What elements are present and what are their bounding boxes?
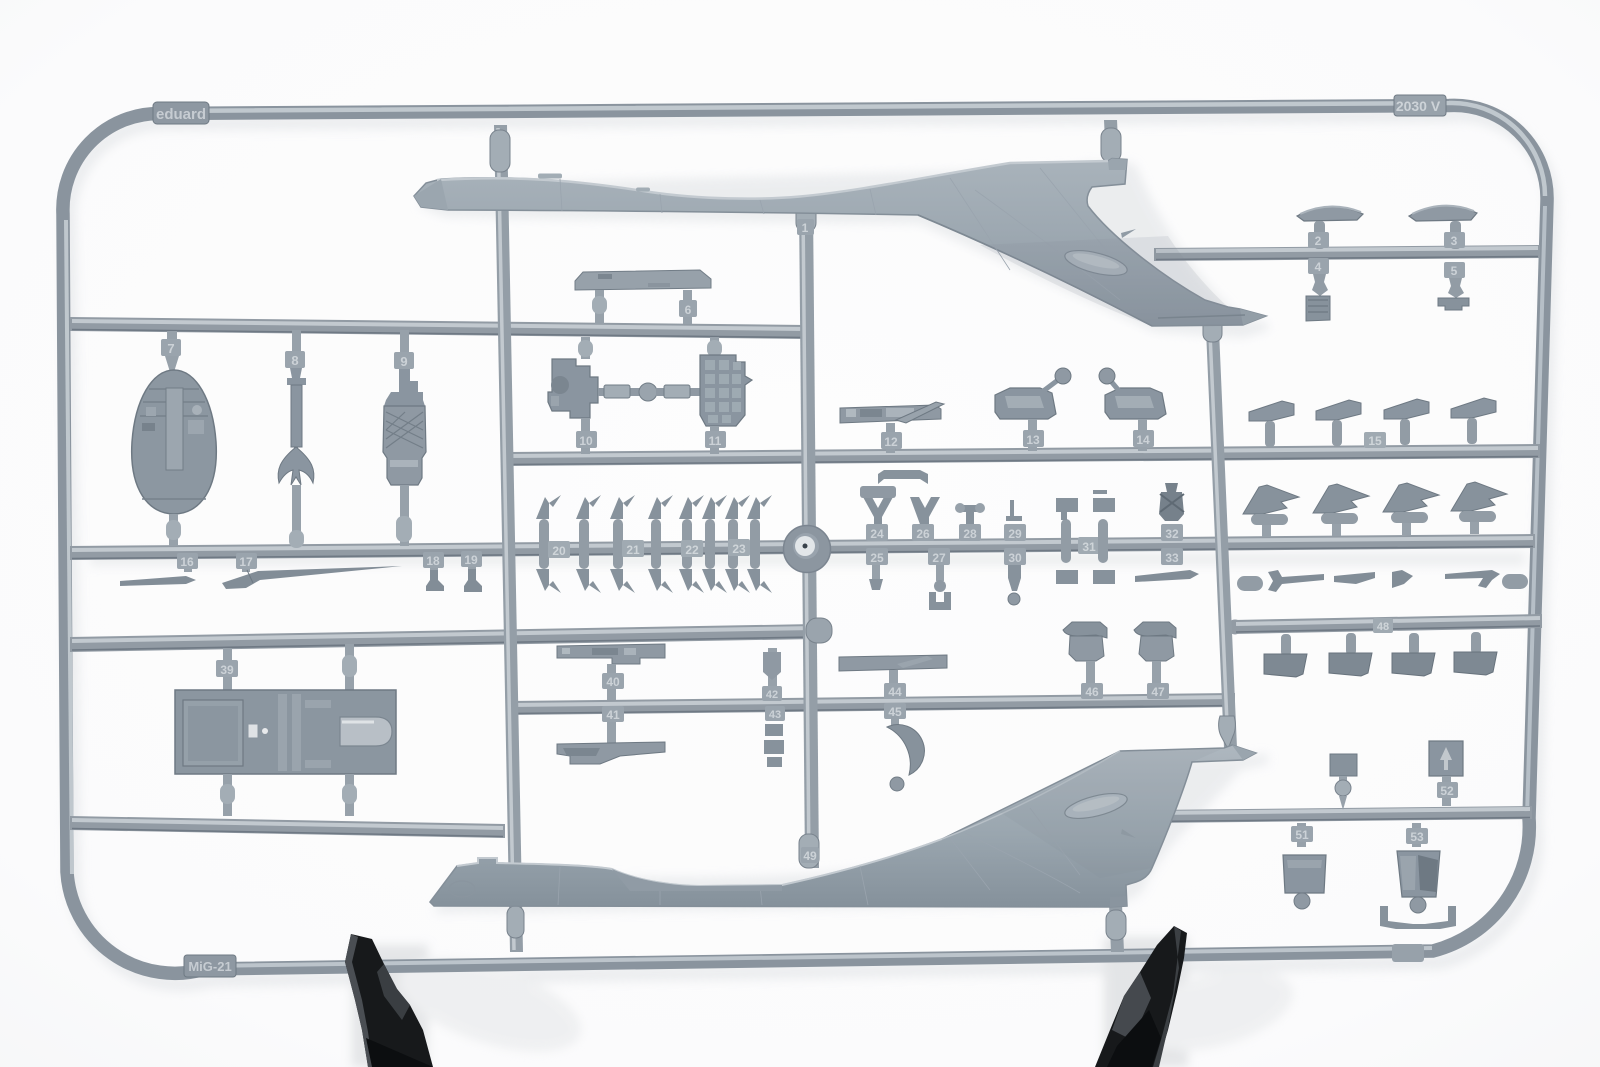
dumbbell link [598,388,642,396]
svg-text:18: 18 [426,554,440,568]
wheel part 1 on RowC [783,525,831,573]
svg-text:25: 25 [870,551,884,565]
label 17 + part 17 long pitot blade [242,560,250,572]
runner R4L (left lower horizontal) [70,624,816,652]
part 40 rail [557,644,665,664]
label 1 tag on V2 [797,219,814,235]
gate knob V1 bottom (to bottom frame) [507,906,524,938]
runner R4R (right lower horizontal) [1234,614,1542,634]
svg-text:10: 10 [579,434,593,448]
label 49 tag on V2 bottom [801,847,819,863]
runner R6R (right bottom horizontal) [1150,806,1532,823]
left clamp [345,934,433,1067]
nozzle cone detail [1232,745,1256,760]
svg-text:49: 49 [803,849,817,863]
MiG-21 tag on bottom frame [184,955,236,977]
stub cap on V2 (bullet) [806,618,832,643]
parts 42 43 column [768,648,777,688]
labels 20-23 31 on RowC [548,541,570,558]
svg-text:11: 11 [709,434,722,448]
svg-text:28: 28 [963,527,977,541]
vertical V4 (top gate to aft fuselage) [1104,120,1119,162]
part 31 flags columns [1061,519,1071,563]
parts 10-11 gates from RowA [581,337,590,359]
parts 15 ramp plates above RowB [1249,401,1294,447]
label 16 + part 16 blade [184,560,192,572]
vertical V1 (left column) [494,125,523,952]
gate knob V3 top (to fin tip) [1203,316,1222,342]
small tag on R4R [1373,618,1393,633]
small tag on bottom frame right [1392,944,1424,962]
gate below 7 [169,514,178,546]
svg-text:19: 19 [464,553,478,567]
svg-text:27: 27 [932,551,946,565]
antenna spike [1121,829,1136,838]
svg-text:48: 48 [1377,621,1389,633]
part 12 sight rail [840,405,941,423]
canopy sill bumps on belly [538,174,562,179]
part 7 instrument panel (egg) [132,370,217,514]
svg-text:24: 24 [870,527,884,541]
eduard tag on top frame [153,102,209,124]
nose ellipse detail [449,881,475,897]
part 3 canopy dome + stem [1409,206,1477,221]
part 9 seat back [384,369,425,406]
vertical V2 (centre column) [799,205,819,868]
part 44 plate above RowD [839,655,947,671]
labels 24 25 column [866,524,888,541]
svg-text:43: 43 [769,709,781,721]
svg-text:14: 14 [1136,433,1150,447]
right clamp [1095,926,1187,1067]
svg-text:26: 26 [916,527,930,541]
svg-text:32: 32 [1165,527,1179,541]
gate knob V1 top (to nose) [490,130,510,172]
runner RowB (middle horizontal) [505,444,1540,466]
svg-text:20: 20 [552,544,566,558]
label 19 + part 19 [468,557,476,571]
svg-text:23: 23 [732,542,746,556]
svg-text:44: 44 [888,685,902,699]
part 41 rail below RowD [607,708,616,744]
svg-text:7: 7 [167,341,174,356]
svg-text:39: 39 [220,663,234,677]
part 8 control column (anchor) [287,368,306,460]
tail bottom nozzle block [1110,896,1127,907]
part 10 panel [548,359,598,418]
svg-text:9: 9 [400,354,407,369]
svg-text:3: 3 [1451,234,1458,248]
label 39 + gates [223,648,232,690]
vertical V3 (right column) [1206,330,1237,748]
antenna spike [1121,229,1136,238]
svg-text:2030 V: 2030 V [1396,98,1441,114]
part 26 fork [910,497,940,527]
part 6 canopy rail [575,270,711,290]
svg-text:eduard: eduard [156,106,206,123]
part 5 below runner [1444,262,1465,278]
runner R1R (upper right horizontal) [1154,245,1540,261]
part 11 waffle console [700,355,752,426]
svg-text:47: 47 [1151,685,1165,699]
svg-text:40: 40 [606,675,620,689]
svg-text:1: 1 [802,221,809,235]
svg-text:5: 5 [1451,264,1458,278]
svg-text:13: 13 [1026,433,1040,447]
label 18 + part 18 [430,558,438,572]
part 53/54 bucket below R6R [1412,823,1421,847]
svg-text:22: 22 [685,543,699,557]
gate below 8 [292,485,301,546]
fin darts 20-23 columns [536,495,561,593]
part 4 below runner [1308,258,1329,274]
part 50 square + gate [1330,754,1357,776]
part 51 below R6R [1297,823,1306,847]
svg-text:2: 2 [1315,234,1322,248]
svg-text:6: 6 [685,303,692,317]
fin fairing ellipse [1063,246,1130,281]
part 47 intake lip [1134,622,1176,638]
runner RowC (long centre horizontal) [70,534,1535,560]
part 52 arrow square + gate [1429,741,1463,776]
svg-text:51: 51 [1295,828,1309,842]
svg-text:17: 17 [239,555,253,569]
runner RowA (left upper horizontal) [70,317,806,339]
part 14 seat pan with lever [1105,388,1166,419]
H bracket above 24/26 [878,470,928,484]
fin lower shading [980,236,1266,326]
svg-text:MiG-21: MiG-21 [188,959,231,974]
label 9 + gate [400,330,409,357]
part 46 intake lip [1063,622,1107,638]
label 7 + gate [167,331,177,359]
svg-text:12: 12 [884,435,898,449]
gate below 9 [400,485,409,546]
svg-text:21: 21 [626,543,640,557]
nozzle cap detail [1108,159,1127,171]
svg-text:4: 4 [1315,260,1322,274]
gate knob V4 [1101,128,1121,162]
part 24 fork above RowC [863,497,893,527]
svg-text:33: 33 [1165,551,1179,565]
part 45 crescent below RowD [884,703,906,719]
svg-text:16: 16 [180,555,194,569]
fin fairing ellipse [1063,789,1130,824]
svg-text:42: 42 [766,689,778,701]
runner RowD (centre lower horizontal) [509,693,1235,715]
thin blades below RowC [1237,576,1263,591]
tailplanes row above RowC [1243,485,1299,537]
svg-text:15: 15 [1368,434,1382,448]
gates below tub [223,774,232,816]
sprue outer frame [63,105,1547,973]
gate knob V2 top (to belly) [796,202,816,232]
2030 V tag on top frame [1394,95,1446,116]
gate knob V2 bottom (to lower fuselage spine) [799,834,819,868]
part 29 antenna + labels 29 30 [1006,500,1022,521]
fin right shading [1000,748,1224,878]
svg-text:30: 30 [1008,551,1022,565]
labels 26 27 [912,524,934,541]
part 13 seat pan with lever [995,388,1056,419]
intake cone shading at nose [414,179,448,210]
runner RowE (left bottom horizontal) [70,816,505,838]
svg-text:8: 8 [291,353,298,368]
gates down to RowB + labels 10 11 [581,418,590,454]
svg-text:29: 29 [1008,527,1022,541]
svg-text:53: 53 [1410,830,1424,844]
svg-text:52: 52 [1440,784,1454,798]
svg-text:41: 41 [606,708,620,722]
part 39 cockpit floor tub [175,690,396,774]
part 2 canopy dome + stem [1297,206,1363,221]
label 8 + gate [292,330,301,356]
canopy opening shading [612,869,782,891]
vertical V5 (lower tail to bottom frame) [1109,904,1124,952]
trapezoid plates below R4R [1264,634,1307,677]
gate knob V3 bottom (to lower nozzle) [1219,716,1236,749]
part 28 T-valve [957,505,983,526]
svg-text:46: 46 [1085,685,1099,699]
svg-text:31: 31 [1082,540,1096,554]
part 32 bomb tail [1159,483,1184,521]
